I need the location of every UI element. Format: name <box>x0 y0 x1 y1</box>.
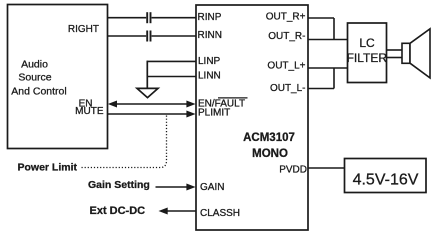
svg-text:4.5V-16V: 4.5V-16V <box>353 172 419 189</box>
wire OUT_L- up <box>333 68 335 89</box>
svg-text:PLIMIT: PLIMIT <box>198 108 230 119</box>
svg-text:Audio: Audio <box>21 59 48 71</box>
wire PVDD to supply <box>308 167 345 169</box>
svg-text:OUT_R+: OUT_R+ <box>266 12 306 23</box>
svg-text:LC: LC <box>359 36 375 50</box>
wire MUTE to PLIMIT <box>108 113 191 115</box>
svg-text:LINN: LINN <box>198 71 221 82</box>
dotted wire Power Limit to PLIMIT net <box>82 116 167 168</box>
svg-text:OUT_L-: OUT_L- <box>270 83 306 94</box>
svg-text:MUTE: MUTE <box>75 106 104 117</box>
wire to ground <box>146 61 148 88</box>
block: Audio Source And Control <box>8 5 108 149</box>
ground <box>137 88 158 97</box>
svg-text:OUT_L+: OUT_L+ <box>267 61 305 72</box>
wire RINP left <box>108 17 147 19</box>
speaker driver <box>402 43 410 63</box>
wire CLASSH to Ext DC-DC arrow <box>166 210 196 212</box>
svg-text:Source: Source <box>18 72 51 84</box>
speaker cone <box>410 29 430 78</box>
wire RINP right <box>152 17 196 19</box>
overline on FAULT <box>218 97 248 99</box>
svg-text:MONO: MONO <box>252 148 288 160</box>
wire RINN right <box>152 35 196 37</box>
svg-text:CLASSH: CLASSH <box>200 208 240 219</box>
svg-text:ACM3107: ACM3107 <box>243 132 295 144</box>
wire OUT_R+ down <box>333 18 335 40</box>
svg-text:RINN: RINN <box>198 30 222 41</box>
wire LINN <box>147 76 196 78</box>
wire OUT_R+ <box>308 17 334 19</box>
svg-text:LINP: LINP <box>198 56 221 67</box>
svg-text:RIGHT: RIGHT <box>68 24 99 35</box>
wire LINP <box>147 60 196 62</box>
svg-text:GAIN: GAIN <box>200 182 224 193</box>
wire filter to speaker bottom <box>386 57 402 59</box>
svg-text:PVDD: PVDD <box>279 164 307 175</box>
wire OUT_R- to filter <box>308 39 348 41</box>
svg-text:OUT_R-: OUT_R- <box>268 31 305 42</box>
wire OUT_L+ to filter <box>308 67 348 69</box>
capacitor C2 plates <box>146 31 148 42</box>
block: ACM3107 MONO chip <box>196 5 308 230</box>
wire EN double arrow <box>113 103 190 105</box>
svg-text:FILTER: FILTER <box>347 51 388 65</box>
svg-text:And Control: And Control <box>11 86 66 98</box>
wire Gain Setting arrow <box>156 186 191 188</box>
wire filter to speaker top <box>386 49 402 51</box>
capacitor C1 plates <box>146 12 148 23</box>
block: LC FILTER <box>348 23 387 83</box>
wire OUT_L- <box>308 88 334 90</box>
svg-text:Power Limit: Power Limit <box>18 161 78 173</box>
svg-text:RINP: RINP <box>198 12 222 23</box>
svg-text:Gain Setting: Gain Setting <box>88 179 150 191</box>
svg-text:Ext DC-DC: Ext DC-DC <box>90 205 146 217</box>
block: 4.5V-16V supply <box>345 159 427 193</box>
wire RINN left <box>108 35 147 37</box>
